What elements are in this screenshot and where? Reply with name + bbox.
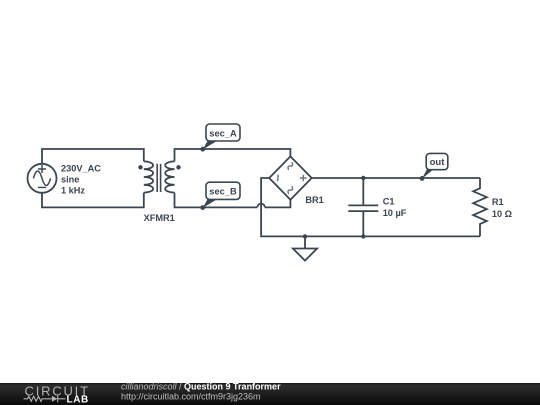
svg-text:10 µF: 10 µF — [383, 208, 407, 218]
svg-text:10 Ω: 10 Ω — [492, 209, 512, 219]
svg-text:LAB: LAB — [67, 395, 89, 405]
svg-text:sec_B: sec_B — [209, 187, 237, 197]
svg-text:BR1: BR1 — [305, 195, 323, 205]
svg-text:XFMR1: XFMR1 — [144, 213, 175, 223]
svg-text:sine: sine — [61, 175, 79, 185]
svg-text:230V_AC: 230V_AC — [61, 164, 101, 174]
svg-text:sec_A: sec_A — [209, 128, 237, 138]
svg-text:http://circuitlab.com/ctfm9r3j: http://circuitlab.com/ctfm9r3jg236m — [121, 392, 261, 402]
svg-text:out: out — [430, 157, 446, 168]
svg-text:cillianodriscoll / Question 9: cillianodriscoll / Question 9 Tranformer — [121, 382, 281, 392]
svg-text:1 kHz: 1 kHz — [61, 186, 85, 196]
svg-text:C1: C1 — [383, 196, 395, 206]
svg-text:R1: R1 — [492, 197, 504, 207]
